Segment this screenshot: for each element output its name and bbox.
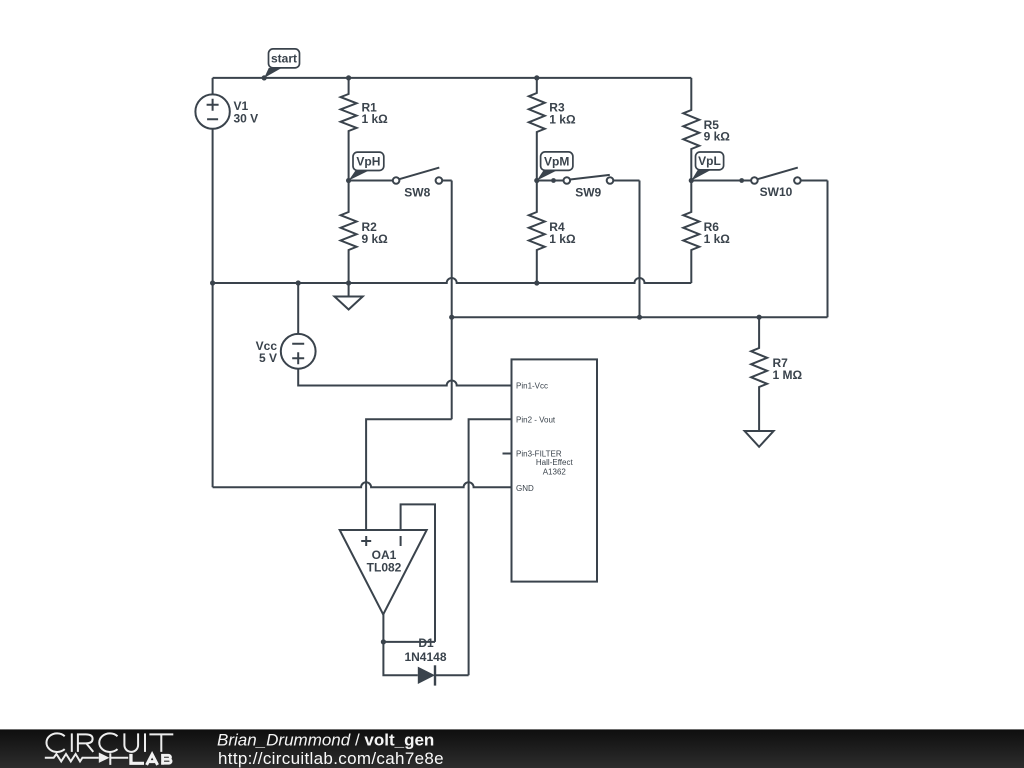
svg-text:VpM: VpM	[544, 155, 569, 169]
node rail A Vcc	[296, 280, 301, 285]
svg-text:Hall-Effect: Hall-Effect	[536, 458, 574, 467]
svg-text:Pin1-Vcc: Pin1-Vcc	[516, 382, 548, 391]
switch SW8	[349, 168, 452, 200]
wire op-amp output	[383, 614, 417, 675]
wire gnd rail with hops over op-amp input and Vout verticals	[213, 482, 512, 487]
wire rail A with hops over SW8 and SW9 verticals	[213, 278, 692, 283]
node rail B R7	[757, 315, 762, 320]
svg-text:SW9: SW9	[575, 186, 601, 200]
node R3 top	[534, 75, 539, 80]
voltage source V1	[195, 94, 258, 128]
svg-text:9 kΩ: 9 kΩ	[704, 130, 731, 144]
switch SW9	[537, 175, 640, 200]
svg-text:VpL: VpL	[698, 154, 721, 168]
node VpL	[689, 178, 694, 183]
CircuitLab logo LAB wordmark	[129, 754, 171, 765]
svg-text:1 kΩ: 1 kΩ	[549, 232, 576, 246]
wire SW10 vertical to rail B	[827, 181, 829, 318]
CircuitLab logo CIRCUIT wordmark	[46, 733, 173, 752]
node op-amp output junction	[381, 639, 386, 644]
node rail A R4	[534, 280, 539, 285]
node rail A left	[210, 280, 215, 285]
svg-text:5 V: 5 V	[259, 351, 277, 365]
net label VpH	[349, 152, 384, 180]
svg-text:VpH: VpH	[356, 155, 380, 169]
wire SW9 vertical to rail B	[639, 181, 641, 318]
wire SW8 vertical to rail B and down	[451, 181, 453, 420]
wire Pin2-Vout to diode cathode	[469, 419, 512, 675]
svg-text:1 kΩ: 1 kΩ	[549, 113, 576, 127]
svg-text:9 kΩ: 9 kΩ	[362, 232, 389, 246]
resistor R4	[529, 181, 576, 284]
svg-text:D1: D1	[418, 636, 434, 650]
svg-text:1 kΩ: 1 kΩ	[362, 112, 389, 126]
svg-text:TL082: TL082	[367, 560, 402, 574]
svg-text:GND: GND	[516, 484, 534, 493]
wire Pin3 stub	[503, 453, 512, 455]
node rail A R2	[346, 280, 351, 285]
svg-text:1N4148: 1N4148	[404, 650, 446, 664]
node VpH	[346, 178, 351, 183]
resistor R6	[683, 181, 730, 284]
svg-text:30 V: 30 V	[234, 111, 259, 125]
net label VpM	[537, 152, 573, 181]
resistor R7	[751, 317, 802, 431]
wire diode cathode to Vout vertical	[435, 674, 469, 676]
node R1 top	[346, 75, 351, 80]
wire left rail V1 top lead	[212, 78, 214, 95]
footer url text	[218, 749, 444, 768]
node rail B SW9	[637, 315, 642, 320]
footer bar	[0, 729, 1024, 768]
svg-text:Brian_Drummond / volt_gen: Brian_Drummond / volt_gen	[217, 730, 434, 749]
wire Vcc top lead	[297, 283, 299, 334]
wire op-amp minus feedback loop	[401, 504, 435, 642]
resistor R5	[683, 78, 730, 181]
wire rail B	[452, 316, 828, 318]
svg-text:SW8: SW8	[404, 186, 430, 200]
svg-text:A1362: A1362	[543, 468, 567, 477]
voltage source Vcc	[256, 334, 316, 369]
svg-text:http://circuitlab.com/cah7e8e: http://circuitlab.com/cah7e8e	[218, 749, 444, 768]
svg-text:1 MΩ: 1 MΩ	[773, 368, 803, 382]
svg-text:1 kΩ: 1 kΩ	[704, 232, 731, 246]
svg-text:Pin2 - Vout: Pin2 - Vout	[516, 415, 556, 424]
wire top rail	[213, 77, 692, 79]
footer title text	[217, 730, 434, 749]
diode D1 1N4148	[404, 636, 446, 685]
resistor R3	[529, 78, 576, 181]
node rail B SW8	[449, 315, 454, 320]
svg-text:SW10: SW10	[760, 185, 793, 199]
wire feedback tap	[383, 641, 435, 643]
CircuitLab logo resistor-diode squiggle	[45, 753, 128, 765]
switch SW10	[691, 168, 827, 200]
resistor R1	[341, 78, 389, 181]
net label VpL	[691, 152, 723, 181]
wire jog to op-amp plus input	[366, 419, 452, 530]
node start on top rail	[262, 75, 267, 80]
ground under R2 node	[335, 283, 363, 310]
hall-effect sensor A1362 box	[512, 359, 598, 581]
svg-text:start: start	[271, 52, 297, 66]
node VpM	[534, 178, 539, 183]
net label start	[264, 49, 299, 78]
resistor R2	[341, 181, 389, 284]
wire left rail down to gnd rail	[212, 283, 214, 487]
wire left rail V1 bottom to rail A	[212, 129, 214, 283]
op-amp OA1 TL082	[340, 530, 427, 614]
wire Vcc bottom to Pin1-Vcc with hop over SW8 vertical	[298, 369, 511, 386]
ground under R7	[745, 431, 774, 447]
